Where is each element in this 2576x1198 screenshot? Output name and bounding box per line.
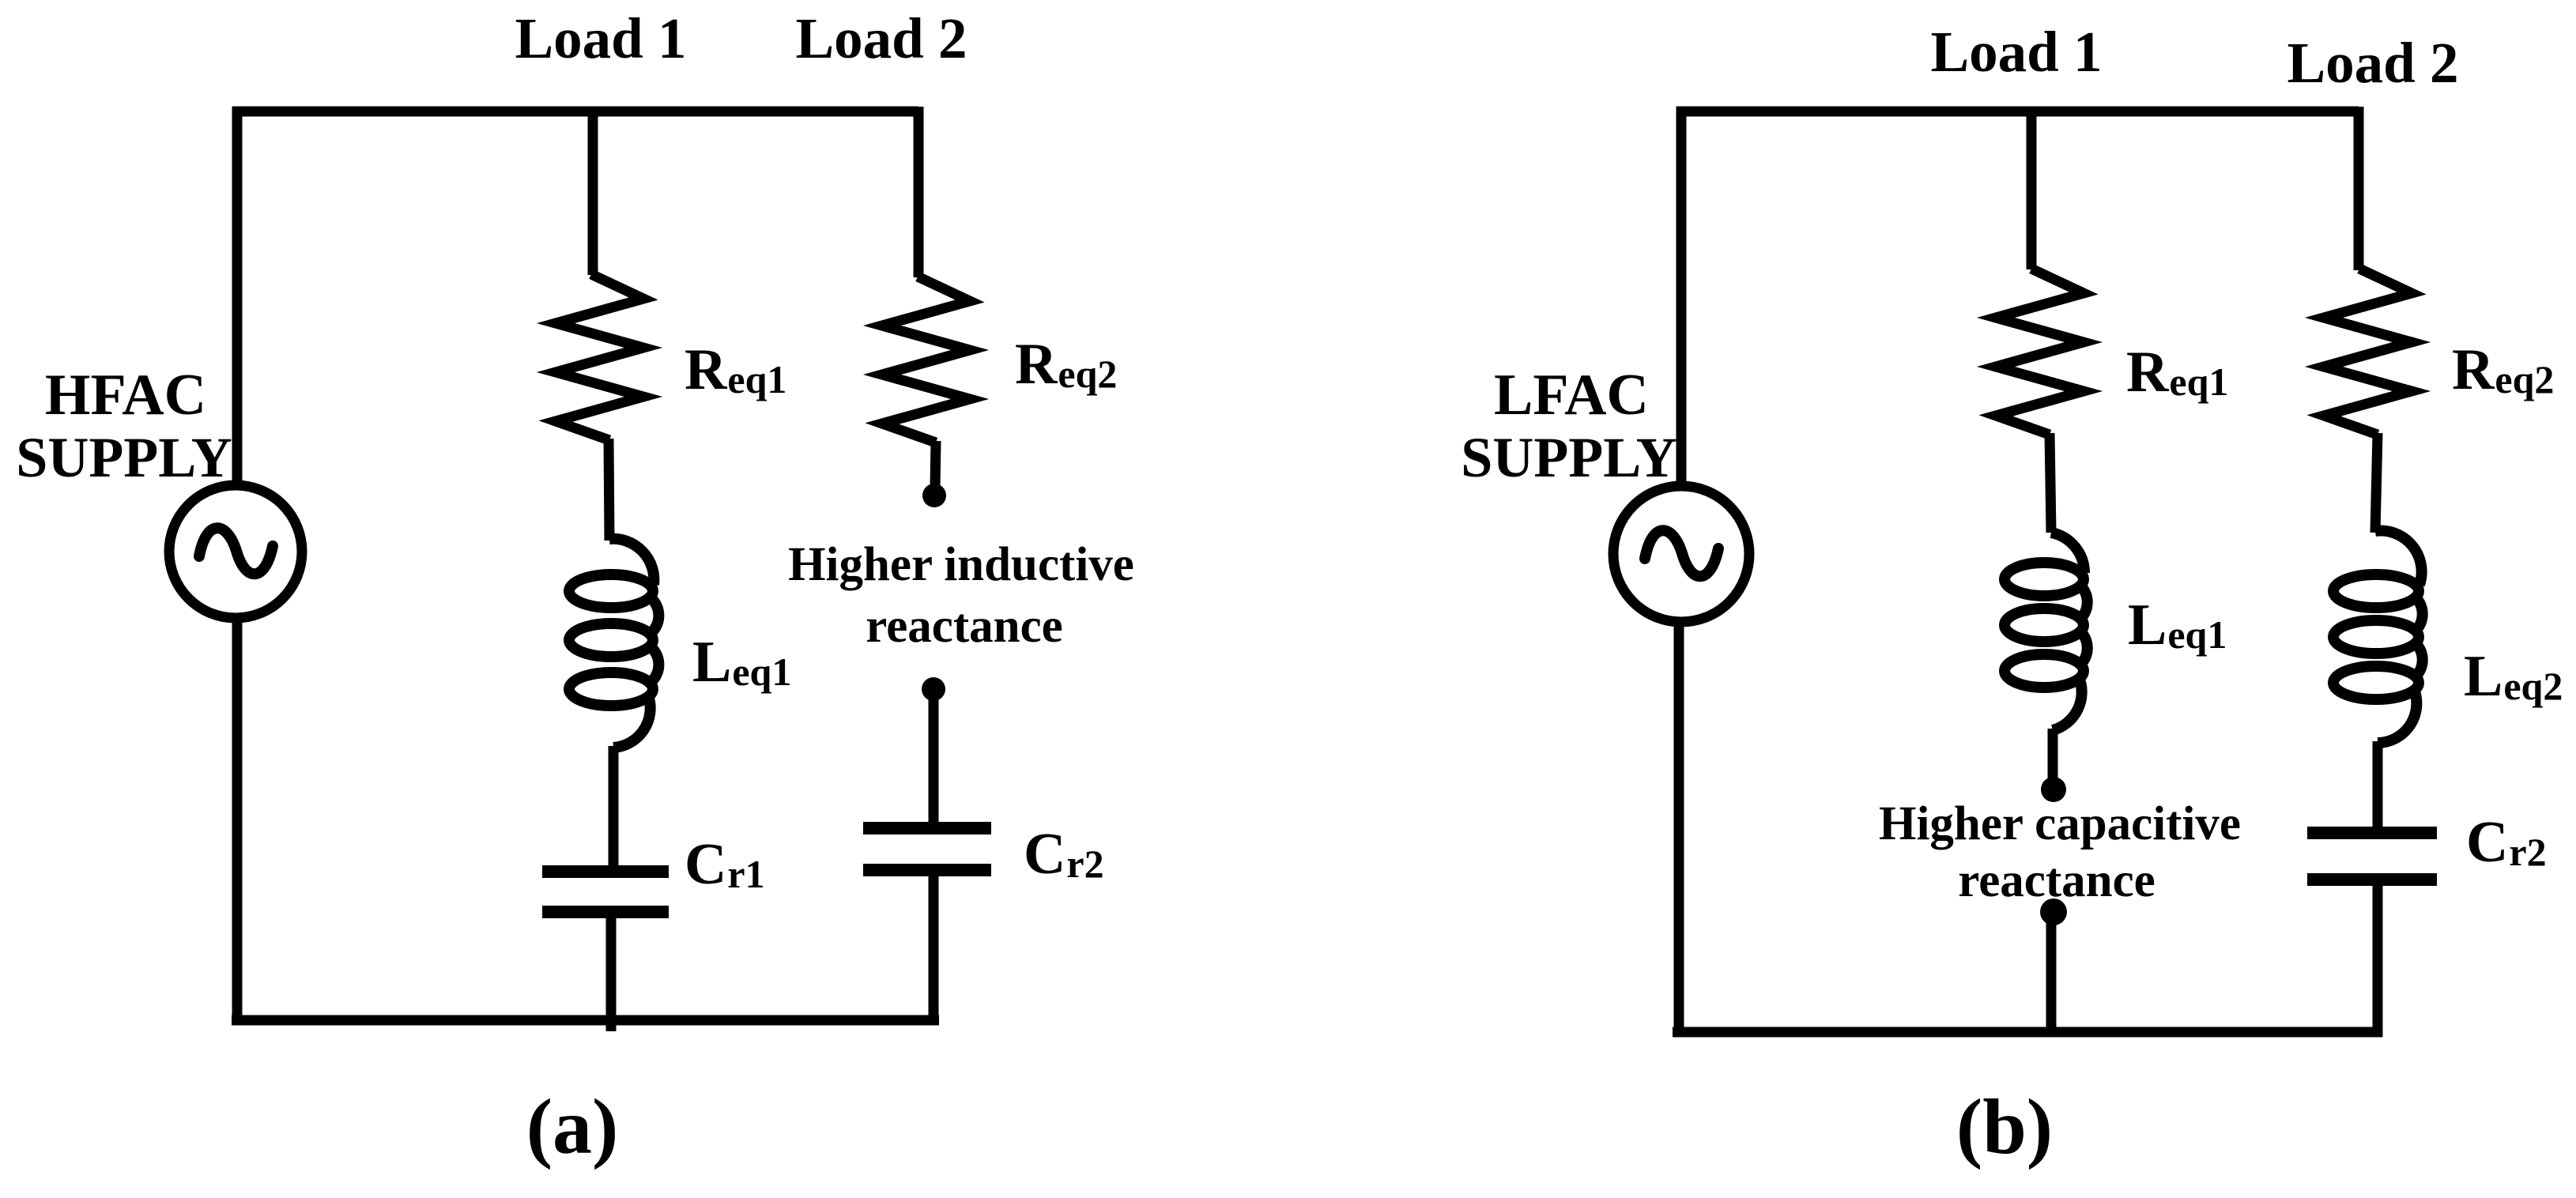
svg-text:Higher inductive: Higher inductive [788, 538, 1134, 591]
svg-text:L: L [2128, 593, 2167, 657]
svg-text:reactance: reactance [866, 600, 1063, 653]
svg-text:Higher capacitive: Higher capacitive [1879, 797, 2241, 850]
svg-text:R: R [2126, 340, 2170, 405]
svg-text:eq2: eq2 [2495, 357, 2554, 401]
svg-text:R: R [1015, 332, 1058, 397]
svg-text:(b): (b) [1956, 1083, 2053, 1170]
svg-text:HFAC: HFAC [45, 363, 206, 428]
svg-text:Load 1: Load 1 [1930, 20, 2102, 84]
svg-text:C: C [1024, 822, 1065, 887]
svg-text:C: C [2466, 810, 2508, 875]
svg-text:eq1: eq1 [2169, 360, 2228, 404]
svg-text:Load 1: Load 1 [515, 6, 686, 70]
svg-text:R: R [2452, 337, 2495, 402]
svg-text:L: L [692, 630, 731, 695]
svg-text:eq1: eq1 [2167, 612, 2227, 657]
svg-text:LFAC: LFAC [1494, 363, 1649, 428]
svg-text:C: C [685, 832, 726, 897]
svg-text:eq2: eq2 [1058, 352, 1117, 396]
svg-text:reactance: reactance [1958, 854, 2155, 907]
svg-text:SUPPLY: SUPPLY [1461, 426, 1676, 489]
svg-text:L: L [2464, 644, 2502, 709]
svg-text:Load 2: Load 2 [795, 6, 967, 70]
svg-text:r2: r2 [1066, 842, 1103, 886]
svg-text:Load 2: Load 2 [2287, 31, 2458, 95]
svg-text:(a): (a) [526, 1083, 619, 1170]
svg-text:r1: r1 [727, 852, 764, 896]
svg-text:eq1: eq1 [732, 650, 791, 694]
svg-text:SUPPLY: SUPPLY [16, 426, 232, 489]
svg-text:eq1: eq1 [727, 357, 786, 401]
svg-text:r2: r2 [2509, 830, 2546, 874]
svg-text:eq2: eq2 [2503, 664, 2563, 708]
svg-text:R: R [685, 337, 728, 402]
